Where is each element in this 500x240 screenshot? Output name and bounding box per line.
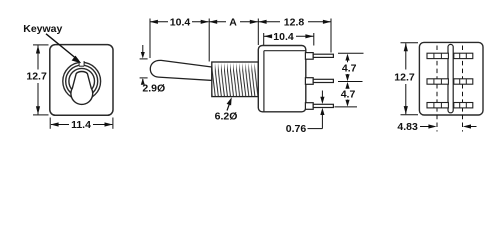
svg-text:11.4: 11.4 <box>71 119 91 131</box>
svg-text:10.4: 10.4 <box>170 16 191 28</box>
svg-text:2.9Ø: 2.9Ø <box>142 83 165 95</box>
svg-text:4.7: 4.7 <box>342 63 357 75</box>
svg-text:0.76: 0.76 <box>286 123 307 135</box>
svg-text:10.4: 10.4 <box>273 31 294 43</box>
svg-text:A: A <box>229 16 237 28</box>
svg-text:12.7: 12.7 <box>394 72 415 84</box>
svg-text:6.2Ø: 6.2Ø <box>215 111 238 123</box>
svg-text:12.8: 12.8 <box>284 16 305 28</box>
svg-text:4.7: 4.7 <box>341 88 356 100</box>
svg-text:4.83: 4.83 <box>397 121 418 133</box>
svg-text:12.7: 12.7 <box>26 71 47 83</box>
svg-text:Keyway: Keyway <box>23 23 62 35</box>
